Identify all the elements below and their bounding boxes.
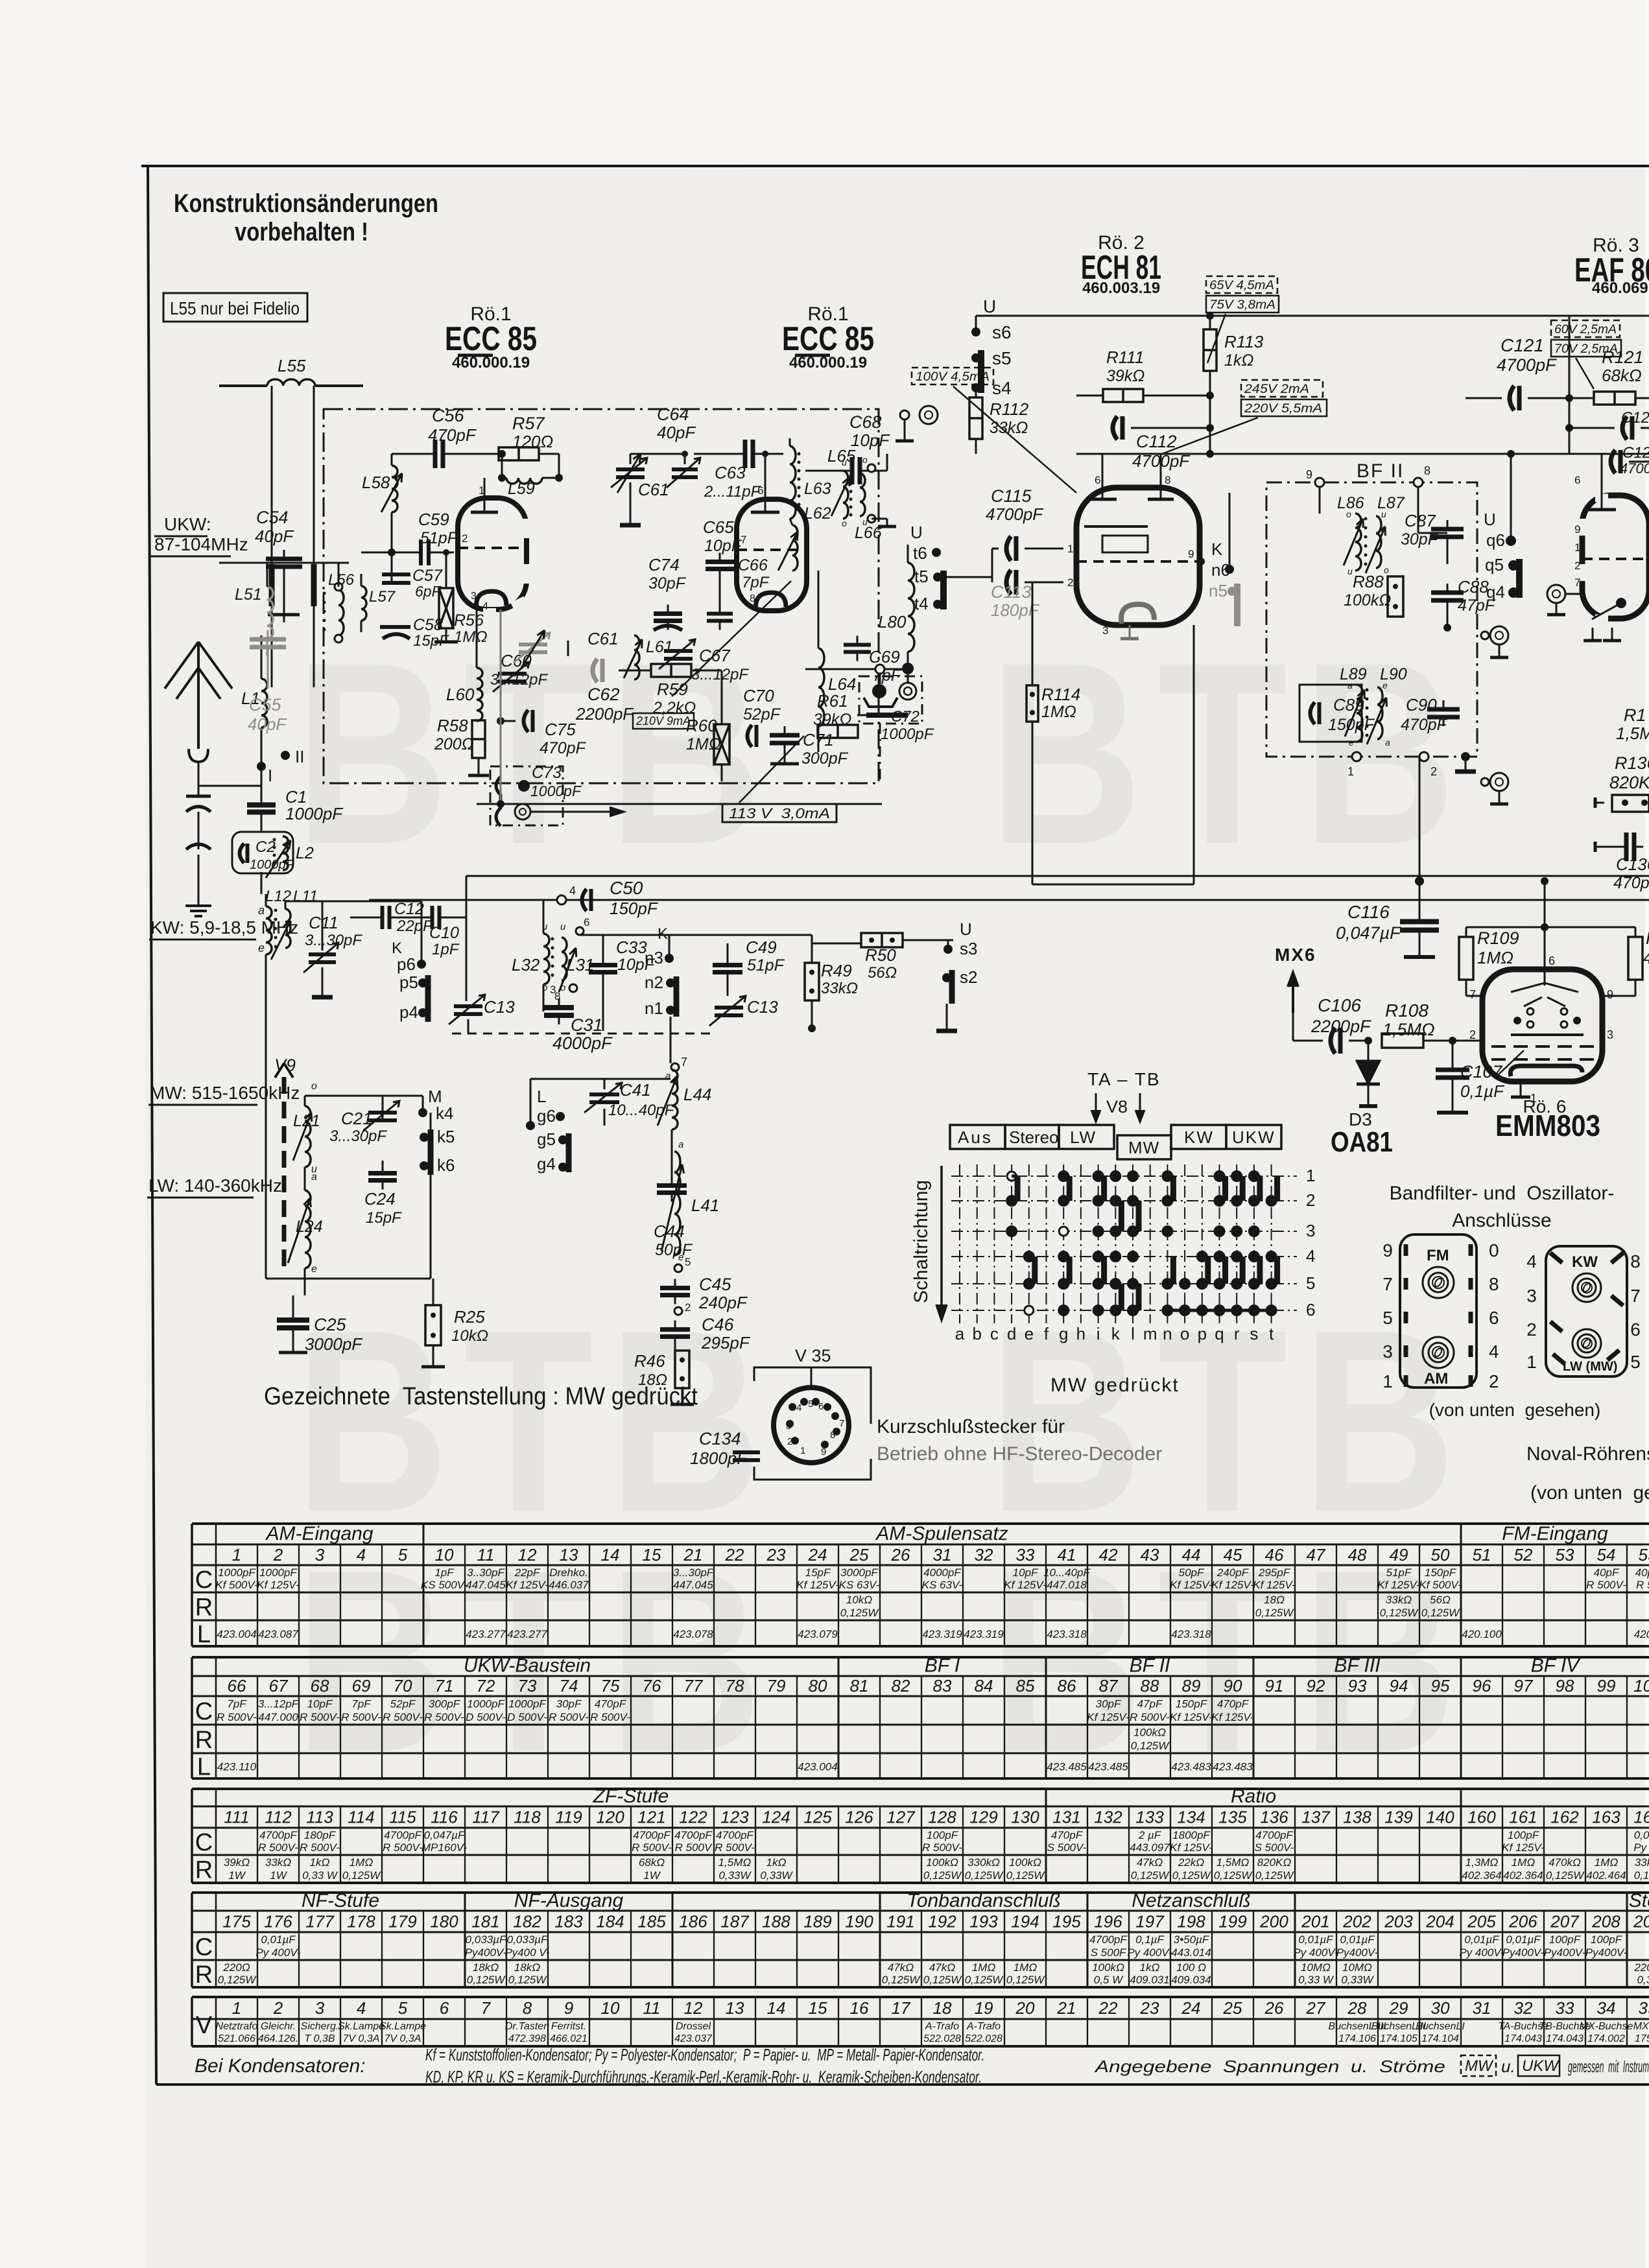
svg-text:Py400V-: Py400V- xyxy=(465,1946,507,1959)
svg-text:3...12pF: 3...12pF xyxy=(490,671,548,689)
svg-text:k6: k6 xyxy=(437,1155,455,1175)
svg-text:R 500V-: R 500V- xyxy=(715,1841,755,1854)
svg-text:423.078: 423.078 xyxy=(673,1628,713,1640)
svg-text:73: 73 xyxy=(518,1676,537,1695)
svg-text:443.097: 443.097 xyxy=(1130,1841,1170,1854)
svg-text:10MΩ: 10MΩ xyxy=(1342,1961,1372,1974)
svg-text:L: L xyxy=(537,1087,546,1106)
label UKW frequency range xyxy=(149,514,248,556)
svg-text:210V 9mA: 210V 9mA xyxy=(635,715,691,727)
svg-text:51pF: 51pF xyxy=(747,956,785,975)
svg-text:188: 188 xyxy=(762,1912,790,1931)
svg-text:Py 16: Py 16 xyxy=(1633,1841,1649,1854)
svg-text:4700pF: 4700pF xyxy=(1089,1933,1128,1946)
terminal s5 s4 bar xyxy=(971,348,1012,398)
svg-text:e: e xyxy=(258,941,265,954)
svg-text:2200pF: 2200pF xyxy=(575,704,634,724)
svg-text:8: 8 xyxy=(830,1430,835,1441)
svg-text:10: 10 xyxy=(601,1998,620,2018)
svg-text:C49: C49 xyxy=(746,938,777,957)
terminal L g6 xyxy=(537,1087,565,1126)
svg-text:1kΩ: 1kΩ xyxy=(310,1856,330,1869)
svg-text:Netztrafo: Netztrafo xyxy=(216,2021,258,2032)
svg-text:820KΩ: 820KΩ xyxy=(1609,773,1649,792)
pushbutton Aus xyxy=(950,1125,1005,1149)
svg-text:100pF: 100pF xyxy=(927,1829,959,1841)
svg-text:C65: C65 xyxy=(703,517,734,537)
svg-text:R 500V-: R 500V- xyxy=(1130,1711,1170,1723)
svg-text:0,033µF: 0,033µF xyxy=(507,1933,549,1946)
svg-text:1,5M: 1,5M xyxy=(1616,724,1649,743)
svg-text:n2: n2 xyxy=(645,973,663,992)
svg-text:240pF: 240pF xyxy=(1216,1566,1250,1579)
label LW frequency range xyxy=(147,1175,282,1198)
tube title Roe.2 ECH 81 xyxy=(1081,232,1161,297)
svg-text:3: 3 xyxy=(786,1421,791,1432)
capacitor C134 1800pF xyxy=(690,1429,760,1480)
svg-text:174.105: 174.105 xyxy=(1380,2033,1418,2044)
svg-text:470pF: 470pF xyxy=(595,1698,627,1710)
svg-text:R: R xyxy=(195,1727,213,1754)
trimmer C61 first gray xyxy=(611,454,685,525)
note Konstruktionsaenderungen vorbehalten! xyxy=(174,189,438,246)
capacitor C62 2200pF gray xyxy=(575,659,634,724)
svg-text:R57: R57 xyxy=(512,414,545,433)
svg-text:o: o xyxy=(862,455,868,465)
svg-text:33kΩ: 33kΩ xyxy=(1386,1594,1412,1606)
svg-text:522.028: 522.028 xyxy=(965,2033,1002,2044)
label Bandfilter- und Oszillator-Anschluesse xyxy=(1390,1183,1615,1231)
svg-text:o: o xyxy=(1180,1324,1189,1343)
svg-text:447.045: 447.045 xyxy=(673,1579,713,1591)
svg-text:51pF: 51pF xyxy=(420,529,458,547)
svg-text:54: 54 xyxy=(1597,1545,1616,1565)
footer capacitor legend xyxy=(195,2045,984,2086)
svg-text:130: 130 xyxy=(1011,1808,1039,1827)
svg-text:300pF: 300pF xyxy=(801,750,849,768)
label 100V 4.5mA xyxy=(912,368,1076,493)
svg-text:0,125W: 0,125W xyxy=(923,1869,963,1882)
svg-text:Noval-Röhrens: Noval-Röhrens xyxy=(1526,1443,1649,1465)
svg-text:33kΩ: 33kΩ xyxy=(1635,1856,1649,1869)
svg-text:C64: C64 xyxy=(657,405,689,424)
svg-text:2: 2 xyxy=(685,1301,691,1314)
svg-text:R112: R112 xyxy=(990,399,1029,419)
svg-text:447.000: 447.000 xyxy=(258,1711,298,1723)
svg-text:4: 4 xyxy=(796,1402,801,1413)
svg-text:R108: R108 xyxy=(1385,1000,1429,1021)
svg-text:C123: C123 xyxy=(1621,409,1649,427)
svg-text:20: 20 xyxy=(1015,1998,1035,2018)
triode ECC85b xyxy=(737,451,807,611)
label 245V 2mA 220V 5.5mA xyxy=(1162,380,1327,454)
tube title Roe.1 ECC 85 first xyxy=(445,303,537,372)
svg-text:209: 209 xyxy=(1633,1912,1649,1931)
svg-text:402.364: 402.364 xyxy=(1462,1869,1501,1882)
svg-text:115: 115 xyxy=(389,1808,416,1827)
svg-text:C134: C134 xyxy=(699,1429,741,1448)
svg-text:Konstruktionsänderungen: Konstruktionsänderungen xyxy=(174,189,438,218)
svg-text:BF I: BF I xyxy=(925,1655,960,1677)
svg-text:113: 113 xyxy=(306,1808,333,1827)
svg-text:LW: 140-360kHz: LW: 140-360kHz xyxy=(148,1175,282,1196)
svg-text:LW (MW): LW (MW) xyxy=(1563,1360,1617,1374)
svg-text:0,125W: 0,125W xyxy=(1131,1740,1170,1752)
table band UKW/BF xyxy=(192,1655,1649,1781)
svg-text:55: 55 xyxy=(1639,1545,1649,1565)
svg-text:117: 117 xyxy=(472,1808,500,1827)
table band V parts xyxy=(192,1997,1649,2046)
svg-text:30pF: 30pF xyxy=(648,574,687,593)
svg-text:68kΩ: 68kΩ xyxy=(639,1856,665,1869)
svg-text:26: 26 xyxy=(891,1545,910,1565)
svg-text:8: 8 xyxy=(1489,1274,1499,1294)
svg-text:464.126.: 464.126. xyxy=(258,2033,298,2044)
svg-text:134: 134 xyxy=(1177,1808,1205,1827)
svg-text:t6: t6 xyxy=(913,543,927,563)
svg-text:3...30pF: 3...30pF xyxy=(673,1566,715,1579)
svg-text:Py 400V-: Py 400V- xyxy=(255,1946,301,1959)
svg-text:C68: C68 xyxy=(849,412,882,432)
coil L44 xyxy=(658,1070,711,1129)
svg-text:o: o xyxy=(311,1081,317,1092)
svg-text:30pF: 30pF xyxy=(556,1698,582,1710)
svg-text:9: 9 xyxy=(821,1447,826,1458)
svg-text:MX-St: MX-St xyxy=(1633,2021,1649,2032)
svg-text:9: 9 xyxy=(1574,523,1580,536)
svg-text:L57: L57 xyxy=(369,588,396,606)
svg-text:Kf 125V-: Kf 125V- xyxy=(1087,1711,1130,1723)
svg-text:40pF: 40pF xyxy=(1594,1566,1620,1579)
svg-text:0,125W: 0,125W xyxy=(1421,1607,1461,1619)
svg-text:3...30pF: 3...30pF xyxy=(329,1128,387,1145)
table band NF xyxy=(192,1890,1649,1989)
svg-text:Netzanschluß: Netzanschluß xyxy=(1132,1890,1250,1911)
svg-text:295pF: 295pF xyxy=(701,1333,751,1353)
svg-text:423.277: 423.277 xyxy=(507,1628,547,1640)
svg-text:0,125W: 0,125W xyxy=(1006,1869,1046,1882)
svg-text:3: 3 xyxy=(1526,1286,1537,1306)
svg-text:74: 74 xyxy=(560,1676,578,1695)
svg-text:0,125W: 0,125W xyxy=(965,1974,1004,1986)
capacitor C106 2200pF xyxy=(1293,995,1372,1054)
svg-text:C88: C88 xyxy=(1458,577,1489,597)
svg-text:7V 0,3A: 7V 0,3A xyxy=(343,2033,380,2044)
svg-text:C136: C136 xyxy=(1616,855,1649,874)
svg-text:330kΩ: 330kΩ xyxy=(967,1856,1000,1869)
svg-text:123: 123 xyxy=(720,1808,749,1827)
coil L80 xyxy=(878,545,914,668)
svg-text:1000pF: 1000pF xyxy=(467,1698,505,1710)
svg-text:Stereo: Stereo xyxy=(1009,1128,1059,1147)
resistor R121 68kohm xyxy=(1569,348,1649,405)
svg-text:93: 93 xyxy=(1348,1676,1367,1695)
svg-text:446.037: 446.037 xyxy=(549,1579,589,1591)
svg-text:Betrieb ohne HF-Stereo-Decoder: Betrieb ohne HF-Stereo-Decoder xyxy=(877,1443,1162,1465)
svg-text:KS 63V-: KS 63V- xyxy=(839,1579,880,1591)
svg-text:n5: n5 xyxy=(1209,581,1228,600)
svg-text:0,33 W: 0,33 W xyxy=(302,1869,338,1882)
svg-text:94: 94 xyxy=(1390,1676,1408,1695)
svg-text:A-Trafo: A-Trafo xyxy=(925,2021,959,2032)
svg-text:100kΩ: 100kΩ xyxy=(1133,1727,1166,1739)
svg-text:C121: C121 xyxy=(1501,335,1544,355)
node II xyxy=(281,747,304,766)
svg-text:3•50µF: 3•50µF xyxy=(1174,1933,1210,1946)
svg-text:191: 191 xyxy=(886,1912,914,1931)
svg-text:R111: R111 xyxy=(1106,348,1144,367)
svg-text:(von unten ges: (von unten ges xyxy=(1530,1482,1649,1504)
coax jack BFII lower xyxy=(1481,773,1508,804)
svg-text:72: 72 xyxy=(477,1676,495,1695)
svg-text:C62: C62 xyxy=(587,685,620,704)
svg-text:200: 200 xyxy=(1259,1912,1288,1931)
wire UKW input top xyxy=(198,563,349,571)
svg-text:33kΩ: 33kΩ xyxy=(990,419,1028,437)
resistor R113 1kohm xyxy=(1204,312,1264,454)
resistor R111 39kohm xyxy=(1076,348,1214,402)
svg-text:L66: L66 xyxy=(855,524,882,542)
svg-text:51: 51 xyxy=(1473,1545,1491,1565)
svg-text:C57: C57 xyxy=(412,567,443,585)
svg-text:184: 184 xyxy=(596,1912,624,1931)
svg-text:3: 3 xyxy=(1382,1341,1393,1362)
svg-text:522.028: 522.028 xyxy=(923,2033,961,2044)
svg-text:K: K xyxy=(1211,539,1223,559)
svg-text:AM-Spulensatz: AM-Spulensatz xyxy=(875,1523,1008,1544)
svg-text:C11: C11 xyxy=(309,913,338,932)
svg-text:87-104MHz: 87-104MHz xyxy=(154,534,248,554)
svg-text:R136: R136 xyxy=(1615,753,1649,773)
svg-text:15pF: 15pF xyxy=(805,1566,831,1579)
svg-text:KW: KW xyxy=(1184,1128,1214,1147)
capacitor C58 15pF xyxy=(380,616,449,650)
svg-text:68: 68 xyxy=(311,1676,329,1695)
capacitor C112 4700pF xyxy=(1113,396,1214,471)
switch contacts lower bank xyxy=(1023,1176,1277,1316)
svg-text:40pF: 40pF xyxy=(248,715,287,734)
resistor R50 56ohm xyxy=(812,933,953,982)
svg-text:gemessen mit Instrum: gemessen mit Instrum xyxy=(1568,2057,1649,2076)
svg-text:n3: n3 xyxy=(645,948,663,967)
svg-text:470pF: 470pF xyxy=(540,739,587,757)
svg-text:g4: g4 xyxy=(537,1154,556,1174)
capacitor C50 150pF xyxy=(557,878,659,918)
svg-text:ECC 85: ECC 85 xyxy=(782,320,874,358)
trimmer C13 oscillator xyxy=(449,995,515,1034)
svg-text:100 Ω: 100 Ω xyxy=(1176,1961,1206,1974)
svg-text:4: 4 xyxy=(357,1998,366,2018)
svg-text:5: 5 xyxy=(1382,1308,1393,1328)
resistor R114 1Mohm xyxy=(1026,582,1080,884)
svg-text:10...40pF: 10...40pF xyxy=(1043,1566,1091,1579)
svg-text:1000pF: 1000pF xyxy=(881,726,934,743)
svg-text:75V 3,8mA: 75V 3,8mA xyxy=(1209,298,1275,312)
capacitor C70 52pF xyxy=(743,686,781,747)
svg-text:47pF: 47pF xyxy=(1137,1698,1163,1710)
svg-text:Kf 125V-: Kf 125V- xyxy=(506,1579,549,1591)
svg-text:51pF: 51pF xyxy=(1386,1566,1412,1579)
svg-text:472.398: 472.398 xyxy=(508,2033,546,2044)
svg-text:0,1µF: 0,1µF xyxy=(1135,1933,1165,1946)
coil L60 xyxy=(446,609,482,721)
svg-text:180pF: 180pF xyxy=(304,1829,337,1841)
switch matrix grid xyxy=(951,1164,1315,1343)
svg-text:3: 3 xyxy=(315,1545,325,1565)
watermark BTB table right xyxy=(989,1516,1471,1806)
label Gezeichnete Tastenstellung xyxy=(264,1383,698,1410)
svg-text:138: 138 xyxy=(1343,1808,1371,1827)
inductor L1 xyxy=(241,635,267,804)
label Noval-Roehrens xyxy=(1526,1443,1649,1504)
svg-text:45: 45 xyxy=(1224,1545,1242,1565)
svg-text:Kf 125V-: Kf 125V- xyxy=(1170,1841,1213,1854)
svg-text:423.319: 423.319 xyxy=(922,1628,962,1640)
svg-text:1pF: 1pF xyxy=(434,1566,455,1579)
svg-text:114: 114 xyxy=(348,1808,374,1827)
label Kurzschlussstecker xyxy=(877,1416,1162,1465)
svg-text:Ferritst.: Ferritst. xyxy=(551,2021,586,2032)
svg-text:C89: C89 xyxy=(1333,695,1364,715)
capacitor C69 7pF xyxy=(844,636,902,685)
svg-text:Sk.Lampe: Sk.Lampe xyxy=(379,2021,426,2032)
magic eye EMM803 tube xyxy=(1466,954,1635,1105)
svg-text:Gleichr.: Gleichr. xyxy=(261,2021,296,2032)
svg-text:6: 6 xyxy=(584,916,589,928)
coil L65 L66 output xyxy=(827,446,896,542)
svg-text:C66: C66 xyxy=(738,556,768,574)
svg-text:0,125W: 0,125W xyxy=(1172,1869,1212,1882)
grounds below EAF xyxy=(1584,628,1621,641)
svg-text:0,5 W: 0,5 W xyxy=(1094,1974,1124,1986)
svg-text:FM-Eingang: FM-Eingang xyxy=(1502,1523,1608,1544)
svg-text:35: 35 xyxy=(1639,1998,1649,2018)
svg-text:Kf 125V-: Kf 125V- xyxy=(1170,1711,1213,1723)
svg-text:204: 204 xyxy=(1425,1912,1454,1931)
svg-text:67: 67 xyxy=(269,1676,289,1695)
svg-text:R: R xyxy=(195,1594,213,1622)
svg-text:15pF: 15pF xyxy=(366,1209,402,1227)
svg-text:50: 50 xyxy=(1431,1545,1450,1565)
svg-text:L89: L89 xyxy=(1340,665,1367,683)
svg-text:e: e xyxy=(1382,680,1388,691)
svg-text:6: 6 xyxy=(1548,954,1555,967)
terminal M k4 xyxy=(418,1087,453,1123)
capacitor C45 240pF xyxy=(660,1275,748,1315)
svg-text:Anschlüsse: Anschlüsse xyxy=(1452,1210,1551,1231)
label V9 and tuning shaft xyxy=(274,1056,296,1273)
svg-text:n: n xyxy=(1163,1324,1172,1343)
svg-text:R 500V-: R 500V- xyxy=(424,1711,464,1723)
svg-text:30: 30 xyxy=(1431,1998,1450,2018)
svg-text:R 500V-: R 500V- xyxy=(341,1711,381,1723)
svg-text:10kΩ: 10kΩ xyxy=(846,1594,872,1606)
svg-text:18: 18 xyxy=(933,1998,952,2018)
svg-text:Stereo: Stereo xyxy=(1629,1890,1649,1911)
svg-text:Py400V-: Py400V- xyxy=(1544,1946,1586,1959)
svg-text:190: 190 xyxy=(845,1912,873,1931)
svg-text:4000pF: 4000pF xyxy=(552,1034,613,1053)
svg-text:L12: L12 xyxy=(265,888,291,905)
svg-text:47kΩ: 47kΩ xyxy=(1137,1856,1163,1869)
svg-text:128: 128 xyxy=(928,1808,956,1827)
svg-text:s: s xyxy=(1250,1324,1258,1343)
svg-text:6: 6 xyxy=(1489,1308,1499,1328)
svg-text:0,125W: 0,125W xyxy=(1131,1869,1170,1882)
svg-text:C46: C46 xyxy=(702,1315,735,1334)
label 65V 4.5mA 75V 3.8mA xyxy=(1206,276,1279,363)
capacitor C46 295pF xyxy=(660,1315,751,1353)
svg-text:KD, KP, KR u. KS = Keramik-Dur: KD, KP, KR u. KS = Keramik-Durchführungs… xyxy=(425,2067,982,2086)
svg-text:22: 22 xyxy=(1098,1998,1118,2018)
svg-text:1: 1 xyxy=(232,1998,241,2018)
svg-text:460.000.19: 460.000.19 xyxy=(452,354,530,372)
terminal U t6 xyxy=(910,523,941,563)
svg-text:UKW:: UKW: xyxy=(164,514,211,534)
svg-text:1kΩ: 1kΩ xyxy=(766,1856,787,1869)
capacitor C10 1pF xyxy=(423,906,460,958)
label KW frequency range xyxy=(149,917,298,939)
svg-text:186: 186 xyxy=(679,1912,707,1931)
input earth capacitor chain xyxy=(185,786,211,916)
svg-text:1kΩ: 1kΩ xyxy=(1224,351,1253,370)
svg-text:10kΩ: 10kΩ xyxy=(451,1327,488,1345)
svg-text:423.318: 423.318 xyxy=(1171,1628,1211,1640)
svg-text:447.045: 447.045 xyxy=(466,1579,506,1591)
svg-text:0,33W: 0,33W xyxy=(718,1869,752,1882)
resistor R57 120ohm xyxy=(498,414,559,478)
svg-text:423.079: 423.079 xyxy=(798,1628,838,1640)
coil L63 L62 xyxy=(778,438,831,571)
svg-text:96: 96 xyxy=(1473,1676,1491,1695)
svg-text:g6: g6 xyxy=(537,1106,556,1126)
svg-text:ZF-Stufe: ZF-Stufe xyxy=(593,1786,669,1807)
svg-text:i: i xyxy=(1097,1324,1100,1343)
terminal k5 k6 bar xyxy=(420,1127,455,1175)
svg-text:7: 7 xyxy=(1469,988,1476,1001)
svg-text:Sicherg.: Sicherg. xyxy=(301,2021,339,2032)
svg-text:3..30pF: 3..30pF xyxy=(467,1566,505,1579)
svg-text:470pF: 470pF xyxy=(1401,716,1448,734)
svg-text:100kΩ: 100kΩ xyxy=(1092,1961,1124,1974)
svg-text:a: a xyxy=(1385,737,1390,748)
svg-text:92: 92 xyxy=(1307,1676,1325,1695)
svg-text:V: V xyxy=(196,2012,213,2039)
svg-text:4: 4 xyxy=(1306,1246,1315,1266)
svg-text:l: l xyxy=(1131,1324,1135,1343)
svg-text:L: L xyxy=(197,1754,211,1781)
svg-text:423.483: 423.483 xyxy=(1171,1761,1211,1773)
svg-text:83: 83 xyxy=(933,1676,952,1695)
svg-text:5: 5 xyxy=(398,1998,408,2018)
terminal K n6 xyxy=(1211,493,1234,580)
svg-text:47kΩ: 47kΩ xyxy=(929,1961,955,1974)
svg-text:470kΩ: 470kΩ xyxy=(1548,1856,1581,1869)
svg-text:2: 2 xyxy=(1067,576,1073,589)
svg-text:466.021: 466.021 xyxy=(550,2033,587,2044)
svg-text:116: 116 xyxy=(431,1808,458,1827)
svg-text:207: 207 xyxy=(1550,1912,1580,1931)
wire oscillator bottom xyxy=(305,1096,431,1295)
terminal q5 q4 bar xyxy=(1485,555,1519,602)
svg-text:0,047µF: 0,047µF xyxy=(424,1829,466,1841)
svg-text:L55: L55 xyxy=(278,356,306,375)
svg-text:C13: C13 xyxy=(747,997,778,1017)
coax jack upper xyxy=(896,406,938,441)
svg-text:470pF: 470pF xyxy=(1613,874,1649,892)
svg-text:3: 3 xyxy=(1102,624,1108,637)
connector KW LW-MW xyxy=(1526,1246,1641,1376)
